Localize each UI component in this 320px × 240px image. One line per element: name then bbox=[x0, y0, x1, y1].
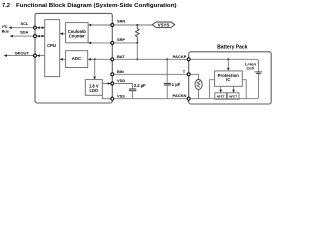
svg-text:Functional Block Diagram (Syst: Functional Block Diagram (System-Side Co… bbox=[16, 3, 177, 9]
I2C Bus label bbox=[2, 24, 9, 34]
pin SCL bbox=[34, 26, 37, 29]
node BAT to LDO branch bbox=[94, 58, 96, 60]
wire PACKP rail to cell positive bbox=[190, 59, 258, 71]
wire sense resistor down to BAT rail bbox=[136, 43, 138, 59]
svg-text:VDD: VDD bbox=[117, 78, 125, 83]
wire SRN to VSYS bbox=[114, 24, 152, 26]
pin SRP bbox=[111, 41, 114, 44]
svg-text:BAT: BAT bbox=[117, 54, 125, 59]
pin SDA bbox=[34, 35, 37, 38]
wire protection IC right sense to cell rail bbox=[242, 80, 246, 99]
pin BIN bbox=[111, 73, 114, 76]
wire LDO output to VDD pin bbox=[102, 83, 110, 85]
svg-text:Battery Pack: Battery Pack bbox=[217, 45, 248, 51]
pin T bbox=[187, 73, 190, 76]
wire SDA external bbox=[11, 35, 33, 37]
svg-text:SCL: SCL bbox=[21, 21, 29, 26]
wire BIN to T bbox=[114, 73, 187, 75]
FET Q2 bbox=[227, 93, 239, 99]
CPU block bbox=[45, 20, 60, 77]
wire BAT pin to ADC bbox=[88, 58, 112, 60]
node protection IC supply tap bbox=[227, 58, 229, 60]
wire tap down to protection IC bbox=[227, 59, 229, 70]
FET Q1 bbox=[215, 93, 227, 99]
svg-text:VSS: VSS bbox=[117, 93, 125, 98]
wire gate drive to FET Q1 bbox=[220, 86, 222, 91]
svg-text:NFET: NFET bbox=[229, 95, 237, 99]
section title bbox=[2, 3, 177, 9]
wire SRN pin to Coulomb Counter bbox=[88, 24, 112, 26]
pin VDD bbox=[111, 82, 114, 85]
pin SRN bbox=[111, 24, 114, 27]
svg-text:GPOUT: GPOUT bbox=[15, 51, 30, 56]
pin PACKN bbox=[187, 97, 190, 100]
pin GPOUT bbox=[34, 54, 37, 57]
wire VDD to decoupling cap bbox=[114, 84, 133, 89]
svg-text:SRN: SRN bbox=[117, 19, 125, 24]
wire protection IC left sense to PACKN rail bbox=[210, 80, 215, 99]
wire BAT branch down to LDO input bbox=[94, 59, 96, 78]
svg-text:2.2 µF: 2.2 µF bbox=[134, 83, 146, 88]
svg-text:SRP: SRP bbox=[117, 37, 125, 42]
pin PACKP bbox=[187, 58, 190, 61]
wire LDO ground to VSS pin bbox=[102, 95, 112, 98]
capacitor 1uF on BAT line bbox=[164, 58, 181, 98]
svg-text:SDA: SDA bbox=[20, 30, 28, 35]
svg-text:PACKN: PACKN bbox=[172, 93, 186, 98]
pin VSS bbox=[111, 97, 114, 100]
wire ADC to CPU bbox=[60, 58, 66, 60]
wire SRP to sense resistor bbox=[114, 42, 137, 44]
VSYS net label bbox=[152, 22, 175, 28]
svg-text:VSYS: VSYS bbox=[158, 23, 170, 28]
svg-text:CPU: CPU bbox=[47, 43, 56, 48]
protection IC bbox=[215, 71, 243, 86]
Coulomb Counter block bbox=[66, 23, 89, 43]
wire BAT to PACKP bbox=[114, 58, 187, 60]
wire Coulomb Counter to CPU bbox=[60, 33, 66, 35]
wire T pin to thermistor bbox=[190, 74, 198, 80]
wire GPOUT internal bbox=[37, 55, 45, 57]
svg-text:Counter: Counter bbox=[69, 34, 85, 39]
svg-text:Cell: Cell bbox=[247, 66, 255, 71]
wire gate drive to FET Q2 bbox=[233, 86, 235, 91]
wire SCL external bbox=[10, 27, 33, 29]
capacitor 2.2uF bbox=[129, 83, 146, 99]
svg-text:1 µF: 1 µF bbox=[172, 82, 181, 87]
wire GPOUT external bbox=[5, 55, 33, 57]
fuel gauge IC outline bbox=[35, 13, 112, 103]
wire VSS to PACKN bbox=[114, 98, 187, 100]
ADC block bbox=[66, 51, 88, 68]
wire thermistor to PACKN rail bbox=[198, 90, 200, 99]
Li-Ion cell BT1 bbox=[245, 62, 262, 74]
svg-text:NFET: NFET bbox=[217, 95, 225, 99]
wire SDA internal bidirectional bbox=[37, 35, 45, 37]
wire SRP pin to Coulomb Counter bbox=[88, 42, 112, 44]
svg-text:BIN: BIN bbox=[117, 69, 124, 74]
svg-text:Bus: Bus bbox=[2, 29, 9, 34]
svg-text:LDO: LDO bbox=[89, 88, 98, 93]
1.8V LDO block bbox=[85, 80, 102, 96]
sense resistor bbox=[135, 24, 139, 44]
thermistor RT bbox=[195, 80, 202, 90]
pin BAT bbox=[111, 58, 114, 61]
wire SCL internal bidirectional bbox=[37, 27, 45, 29]
battery pack outline bbox=[189, 52, 272, 104]
svg-text:IC: IC bbox=[226, 77, 230, 82]
svg-text:7.2: 7.2 bbox=[2, 3, 10, 9]
svg-text:PACKP: PACKP bbox=[173, 54, 187, 59]
wire PACKN rail to cell negative bbox=[190, 74, 258, 99]
svg-text:ADC: ADC bbox=[72, 56, 81, 61]
